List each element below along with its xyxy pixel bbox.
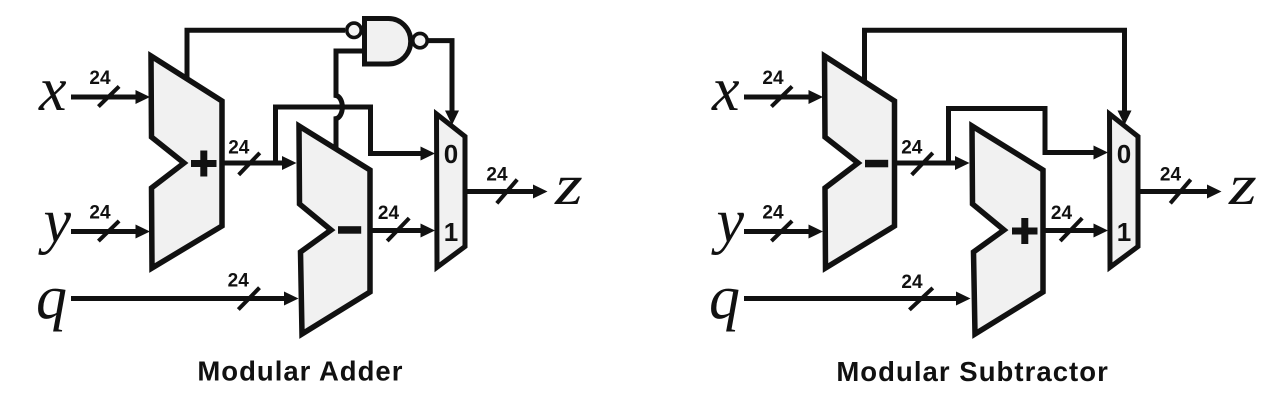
multiplexer M2 <box>1110 114 1139 267</box>
adder U1 (ALU shape) <box>151 56 222 268</box>
NAND gate G1 body <box>365 19 411 65</box>
wire q input (right) <box>744 292 971 306</box>
svg-text:24: 24 <box>228 138 250 159</box>
svg-text:24: 24 <box>1160 165 1182 186</box>
svg-text:24: 24 <box>378 203 400 224</box>
wire q input <box>71 292 299 306</box>
svg-text:1: 1 <box>1117 217 1131 247</box>
svg-text:24: 24 <box>1051 203 1073 224</box>
minus sign U3 <box>865 160 888 168</box>
svg-text:1: 1 <box>444 217 458 247</box>
adder U4 (ALU shape) <box>972 126 1043 334</box>
bus slash (z) <box>497 180 517 204</box>
svg-text:q: q <box>709 264 740 332</box>
wire U2 borrow-out to NAND input 2 (with hop over crossing wire) <box>336 51 365 150</box>
svg-text:0: 0 <box>1117 139 1131 169</box>
wire U3 borrow-out to mux select (right) <box>865 30 1132 125</box>
NAND G1 output bubble <box>413 33 427 47</box>
bus slash (z, right) <box>1170 180 1190 204</box>
bus slash (x, right) <box>771 86 792 106</box>
NAND G1 inverted input bubble <box>347 23 361 37</box>
wire U4 output to mux input 1 (right) <box>1043 224 1108 238</box>
bus slash (U3 output) <box>912 153 933 175</box>
wire U1 output branch to mux input 0 <box>276 107 436 163</box>
svg-text:y: y <box>38 188 72 256</box>
wire U1 sum output to U2 input 1 <box>222 156 297 170</box>
svg-text:x: x <box>711 56 740 124</box>
bus slash (q, right) <box>909 288 932 310</box>
svg-text:24: 24 <box>901 272 923 293</box>
svg-text:z: z <box>1228 154 1257 217</box>
wire y input <box>71 225 150 239</box>
svg-text:24: 24 <box>762 203 784 224</box>
svg-text:x: x <box>38 56 67 124</box>
svg-text:0: 0 <box>444 139 458 169</box>
wire NAND output to mux select <box>427 41 459 125</box>
subtractor U2 (ALU shape) <box>299 126 370 334</box>
svg-text:24: 24 <box>762 68 784 89</box>
bus slash (U2 output) <box>387 218 409 241</box>
wire U1 carry-out to NAND input 1 <box>187 30 345 80</box>
svg-text:24: 24 <box>89 68 111 89</box>
wire U3 output to U4 input 1 <box>895 156 970 170</box>
bus slash (U4 output) <box>1060 218 1082 241</box>
svg-text:y: y <box>711 188 745 256</box>
wire U3 output branch to mux input 0 (right) <box>949 109 1109 164</box>
subtractor U3 (ALU shape) <box>825 56 895 268</box>
wire U2 output to mux input 1 <box>370 224 435 238</box>
svg-text:24: 24 <box>228 271 250 292</box>
wire M2 output to z <box>1138 185 1222 199</box>
bus slash (x) <box>98 86 119 106</box>
wire M1 output to z <box>465 185 548 199</box>
svg-text:q: q <box>36 264 67 332</box>
plus sign U1 <box>191 151 217 177</box>
svg-text:Modular Subtractor: Modular Subtractor <box>836 356 1109 387</box>
bus slash (q) <box>238 288 259 310</box>
bus slash (U1 output) <box>239 153 260 175</box>
multiplexer M1 <box>437 114 466 267</box>
bus slash (y, right) <box>771 221 792 241</box>
wire x input (right) <box>744 90 823 104</box>
bus slash (y) <box>98 221 119 241</box>
svg-text:Modular Adder: Modular Adder <box>197 356 403 387</box>
svg-text:24: 24 <box>486 165 508 186</box>
wire y input (right) <box>744 225 823 239</box>
minus sign U2 <box>338 226 361 234</box>
svg-text:24: 24 <box>901 138 923 159</box>
svg-text:24: 24 <box>89 203 111 224</box>
wire x input <box>71 90 150 104</box>
svg-text:z: z <box>554 154 583 217</box>
plus sign U4 <box>1012 218 1038 244</box>
